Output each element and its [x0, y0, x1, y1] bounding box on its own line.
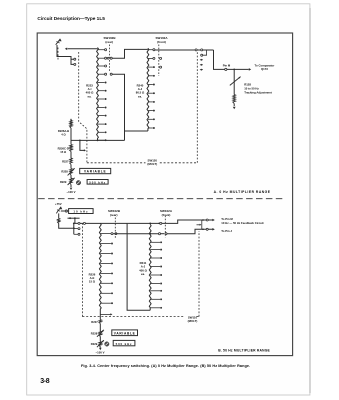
svg-text:−100 V: −100 V — [96, 350, 105, 354]
svg-text:B. 50 Hz MULTIPLIER RANGE: B. 50 Hz MULTIPLIER RANGE — [218, 349, 270, 353]
resistor R229 variable (B) — [99, 342, 102, 347]
svg-text:(rear): (rear) — [110, 213, 118, 217]
svg-text:VARIABLE: VARIABLE — [114, 331, 136, 335]
contact circle — [74, 63, 76, 65]
switch SW120 rotary shaft arrow (diagram A) — [56, 39, 61, 45]
wire: wafer top contact to Pin M feedback (B) — [127, 220, 213, 223]
wiper arrow on bus wire A — [68, 48, 98, 50]
svg-text:Pin M: Pin M — [223, 64, 231, 68]
contact circle across wafer line (B) — [115, 233, 117, 235]
svg-text:(rear): (rear) — [105, 40, 113, 44]
wafer SW102B dashed section line (B) — [114, 218, 116, 240]
500 kHz box (B) — [113, 340, 135, 345]
resistor string R240 A-J (A right wafer) — [147, 48, 149, 131]
resistor string R241 A-J (B right wafer) — [149, 224, 151, 310]
500 kHz box (A) — [87, 180, 108, 185]
wire: second wafer contact to Pin J (B) — [113, 233, 158, 235]
wire: SW102A wiper to Pin M (A) — [155, 49, 214, 51]
svg-text:15 Ω: 15 Ω — [89, 280, 96, 284]
resistor chain R226-R229 (A left) — [70, 118, 72, 120]
resistor chain R227-R229 (B) — [99, 312, 101, 320]
svg-text:VARIABLE: VARIABLE — [84, 170, 106, 174]
wire: SW102B contact to SW102A top (A) — [112, 49, 148, 58]
arrow to -100V supply rail (B) — [99, 348, 102, 350]
svg-text:3-8: 3-8 — [40, 378, 50, 385]
switch SW110 rotary shaft arrow (diagram B) — [56, 207, 61, 214]
wire hook to second contact — [71, 59, 74, 64]
resistor R227 — [70, 158, 73, 165]
resistor string R223 A-I (A left wafer) — [97, 48, 99, 141]
contact circles across wafer line SW102A (A) — [160, 57, 162, 59]
mechanical linkage dashed line SW110 (B) — [81, 223, 83, 317]
arrow to -100V supply (A) — [233, 107, 236, 110]
wiper arrow and tie stub (B right) — [201, 220, 203, 229]
contact circles across wafer line (A) — [107, 57, 109, 59]
svg-text:+75V: +75V — [55, 202, 62, 206]
resistor R229 variable — [70, 178, 73, 185]
connector circle — [65, 210, 67, 212]
resistor string R226 A-E (B left wafer) — [99, 223, 101, 311]
svg-text:ea.: ea. — [141, 272, 145, 276]
svg-text:500 kHz: 500 kHz — [116, 342, 133, 346]
bus wire to left wafer (B) — [74, 222, 127, 224]
svg-text:15 Ω: 15 Ω — [60, 150, 67, 154]
upper contact line with junctions (B) — [68, 217, 80, 219]
wiper arrows of SW102A sections (A) — [200, 59, 202, 61]
wafer SW102A contact taps (B) — [150, 241, 160, 243]
wafer SW102B contact taps (A) — [98, 49, 105, 51]
wiper stub to SW120 plate (A) — [80, 140, 84, 150]
resistor R227 (B) — [99, 320, 102, 324]
svg-text:R227: R227 — [91, 320, 98, 324]
svg-text:R226C-D: R226C-D — [58, 147, 69, 151]
resistor R228 variable (B) — [99, 331, 102, 336]
hook contact below wiper bus (A) — [203, 50, 207, 55]
svg-text:ea.: ea. — [88, 94, 92, 98]
wire down to Pin M level (A) — [214, 50, 225, 69]
wafer SW102A dashed section line (B) — [164, 216, 166, 238]
wafer SW102B contact taps (B) — [100, 233, 111, 235]
mechanical linkage dashed line SW120 (A) — [57, 48, 59, 61]
svg-text:Fig. 3-4. Center frequency swi: Fig. 3-4. Center frequency switching. (A… — [81, 364, 250, 368]
svg-text:500 kHz: 500 kHz — [89, 180, 106, 184]
R128 adjustment arrow — [230, 77, 241, 86]
svg-text:(front): (front) — [157, 40, 166, 44]
svg-text:10 kHz: 10 kHz — [73, 210, 88, 214]
resistor R226C-D — [70, 145, 73, 152]
svg-text:ea.: ea. — [138, 94, 142, 98]
svg-text:R227: R227 — [62, 160, 69, 164]
resistor bus wire (A bottom) — [71, 139, 125, 141]
ganged lamp symbol (B) — [105, 342, 109, 346]
svg-text:To Pin J: To Pin J — [221, 229, 232, 233]
svg-text:R226A-B: R226A-B — [58, 129, 69, 133]
svg-text:(front): (front) — [162, 213, 171, 217]
resistor R128 tracking adjustment — [233, 69, 235, 94]
wire from shaft to selector contacts A — [57, 45, 74, 59]
VARIABLE control box (A) — [80, 168, 111, 173]
svg-text:R229: R229 — [60, 180, 67, 184]
wafer SW102A dashed section line (A) — [158, 45, 160, 77]
wire: SW102B contact loop to SW102A bottom (A) — [112, 74, 148, 131]
svg-text:(MULT): (MULT) — [147, 162, 157, 166]
svg-text:R228: R228 — [91, 331, 98, 335]
dashed separator between diagrams — [38, 198, 284, 200]
arrow to -100V supply rail (A) — [70, 188, 73, 190]
wiper stub arrow (B bottom) — [100, 313, 110, 315]
ganged lamp symbol (A) — [76, 181, 80, 185]
loop wire: left wafer to R241 string bottom (B) — [127, 223, 150, 310]
VARIABLE control box (B) — [112, 330, 138, 336]
wafer SW102A contact taps (A) — [148, 49, 153, 51]
svg-text:Q173: Q173 — [261, 67, 268, 71]
svg-text:Circuit Description—Type 1L5: Circuit Description—Type 1L5 — [37, 16, 105, 22]
resistor R228 variable — [70, 169, 73, 176]
svg-text:Tracking Adjustment: Tracking Adjustment — [244, 90, 272, 94]
wafer SW102B dashed section line (A) — [108, 45, 110, 72]
resistor in series with shaft (B) — [58, 213, 60, 218]
svg-text:10 Hz — 50 Hz Feedback Circuit: 10 Hz — 50 Hz Feedback Circuit — [221, 221, 263, 225]
svg-text:(MULT): (MULT) — [188, 319, 198, 323]
wire shaft to 10 kHz box — [61, 210, 65, 212]
node Pin M (connector pin) — [225, 68, 227, 70]
selector contact hooks (B) — [73, 223, 75, 234]
wire: loop down to resistor bus (A) — [124, 131, 126, 140]
10 kHz position box — [69, 209, 94, 214]
figure frame border — [37, 33, 292, 356]
svg-text:R228: R228 — [61, 170, 68, 174]
wire: Pin M to comparator with arrow — [227, 68, 249, 70]
dashed linkage bottom run to SW102A — [87, 162, 146, 164]
svg-text:A. 0 Hz MULTIPLIER RANGE: A. 0 Hz MULTIPLIER RANGE — [214, 190, 271, 194]
svg-text:R229: R229 — [91, 342, 98, 346]
contact circle — [74, 58, 76, 60]
svg-text:−100 V: −100 V — [67, 190, 76, 194]
